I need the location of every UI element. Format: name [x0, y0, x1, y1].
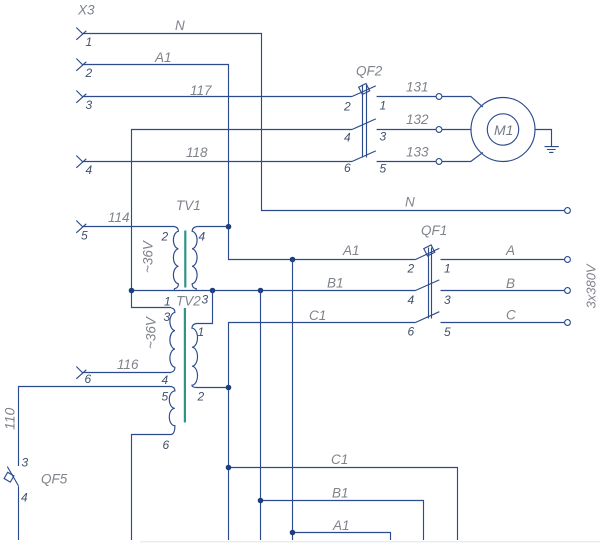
breaker QF2 square [359, 83, 370, 94]
junction TV1.4/A1 [226, 224, 232, 230]
transformer TV2 secondary winding pins 1-2 [192, 291, 229, 388]
junction A1 bottom [290, 530, 296, 536]
transformer TV1 core [184, 231, 186, 288]
wire B1 branch down [260, 291, 262, 541]
svg-text:117: 117 [190, 83, 212, 98]
svg-text:133: 133 [406, 145, 429, 160]
svg-text:2: 2 [197, 390, 205, 404]
svg-text:C: C [506, 308, 516, 323]
transformer TV2 winding pins 5-6 [132, 387, 175, 541]
svg-text:TV1: TV1 [176, 198, 201, 213]
breaker QF1 blade pole 3 [416, 312, 440, 323]
svg-text:5: 5 [444, 325, 451, 339]
wire motor to ground [535, 130, 552, 147]
svg-text:X3: X3 [77, 3, 95, 18]
svg-text:QF2: QF2 [356, 64, 383, 79]
wire from QF5.4 down [18, 486, 20, 540]
svg-text:2: 2 [343, 100, 351, 114]
svg-text:B1: B1 [327, 276, 344, 291]
terminal circle A [565, 257, 571, 263]
motor M1 inner circle [487, 114, 518, 145]
terminal circle C [565, 320, 571, 326]
transformer TV2 winding pins 3-4 [170, 308, 175, 373]
svg-text:C1: C1 [331, 452, 348, 467]
transformer TV2 core [184, 308, 186, 423]
svg-text:3: 3 [22, 456, 29, 470]
svg-text:4: 4 [344, 131, 351, 145]
svg-text:132: 132 [406, 112, 429, 127]
svg-text:A1: A1 [332, 518, 350, 533]
terminal circle 133 [436, 159, 442, 165]
junction C1/TV2.2 [226, 385, 232, 391]
svg-text:118: 118 [186, 145, 208, 160]
svg-text:4: 4 [21, 491, 28, 505]
connector X3 pin 6 [76, 367, 86, 379]
svg-text:6: 6 [344, 161, 351, 175]
svg-text:~36V: ~36V [144, 315, 159, 349]
svg-text:4: 4 [199, 230, 206, 244]
wire TV1 pin 4 to A1 vertical [197, 226, 228, 228]
junction B1/QF2 branch [129, 288, 135, 294]
svg-text:1: 1 [164, 295, 171, 309]
breaker QF2 blade pole 2 [352, 119, 376, 130]
svg-text:5: 5 [81, 229, 88, 243]
wire B QF1.3 to terminal [441, 290, 566, 292]
svg-text:4: 4 [86, 163, 93, 177]
svg-text:6: 6 [85, 372, 92, 386]
svg-text:4: 4 [162, 373, 169, 387]
svg-text:A1: A1 [342, 243, 360, 258]
connector X3 pin 2 [76, 59, 86, 71]
svg-text:N: N [175, 18, 185, 33]
svg-text:110: 110 [2, 407, 18, 430]
wire N from X3.1 to terminal [82, 34, 565, 211]
wire from B1 up to QF2.4 and down to TV2 pin 3 [132, 130, 353, 308]
transformer TV1 secondary winding pins 4-3 [192, 227, 197, 291]
breaker QF1 blade pole 2 [416, 280, 440, 291]
connector X3 pin 3 [76, 91, 86, 103]
svg-text:B: B [506, 276, 515, 291]
svg-text:3: 3 [164, 310, 171, 324]
wire 132 QF2.3 to motor [377, 129, 472, 131]
breaker QF5 square [4, 472, 14, 482]
wire C1 row from corner to QF1.6 and down [229, 323, 416, 541]
terminal circle 131 [436, 94, 442, 100]
wire 114 from X3.5 to TV1 pin 2 [82, 226, 174, 228]
wire 117 from X3.3 to QF2.2 [82, 96, 352, 98]
junction B1/branch down [258, 288, 264, 294]
wire 133 QF2.5 to motor [377, 152, 483, 161]
svg-text:3x380V: 3x380V [584, 263, 599, 308]
svg-text:4: 4 [408, 293, 415, 307]
svg-text:5: 5 [162, 390, 169, 404]
wire 118 from X3.4 to QF2.6 [82, 161, 352, 163]
junction B1/TV2.1 [210, 288, 216, 294]
svg-text:2: 2 [85, 66, 93, 80]
wire 131 QF2.1 to motor [377, 97, 483, 108]
sheet edge line [140, 541, 600, 543]
svg-text:1: 1 [86, 35, 93, 49]
breaker QF5 blade [7, 467, 18, 486]
svg-text:6: 6 [163, 438, 170, 452]
svg-text:1: 1 [380, 99, 387, 113]
breaker QF1 square [424, 245, 435, 256]
connector X3 pin 5 [76, 221, 86, 233]
wire A QF1.1 to terminal [441, 259, 566, 261]
svg-text:3: 3 [444, 293, 451, 307]
ground symbol [545, 147, 559, 153]
svg-text:3: 3 [380, 130, 387, 144]
svg-text:3: 3 [86, 98, 93, 112]
svg-text:A: A [505, 243, 515, 258]
wire A1 branch down [292, 260, 294, 541]
svg-text:116: 116 [117, 357, 139, 372]
wire A1 bottom row [293, 533, 391, 541]
wire 110 from QF5.3 to TV2.5 [19, 387, 172, 467]
wire B1 row to QF1.4 [132, 290, 416, 292]
wire A1 from X3.2 down to QF1 row A [82, 65, 415, 260]
breaker QF2 linkage [363, 85, 367, 158]
svg-text:C1: C1 [309, 308, 326, 323]
breaker QF1 linkage [429, 248, 432, 319]
svg-text:131: 131 [406, 80, 429, 95]
svg-text:2: 2 [161, 230, 169, 244]
svg-text:1: 1 [444, 262, 451, 276]
wire C1 bottom row [229, 468, 458, 541]
wire 116 from X3.6 to TV2.4 [82, 372, 171, 374]
connector X3 pin 4 [76, 156, 86, 168]
svg-text:TV2: TV2 [176, 294, 201, 309]
breaker QF2 blade pole 1 [352, 86, 376, 97]
svg-text:2: 2 [407, 262, 415, 276]
connector X3 pin 1 [76, 28, 86, 40]
breaker QF1 blade pole 1 [416, 248, 440, 259]
svg-text:6: 6 [408, 325, 415, 339]
svg-text:3: 3 [202, 293, 209, 307]
junction C1 bottom [226, 465, 232, 471]
svg-text:1: 1 [198, 325, 205, 339]
svg-text:N: N [405, 195, 415, 210]
junction A1/branch down [290, 257, 296, 263]
wire C QF1.5 to terminal [441, 322, 566, 324]
svg-text:114: 114 [108, 210, 130, 225]
wire B1 bottom row [261, 501, 424, 541]
svg-text:QF1: QF1 [421, 223, 447, 238]
svg-text:M1: M1 [494, 122, 513, 138]
breaker QF2 blade pole 3 [352, 151, 376, 162]
svg-text:5: 5 [380, 162, 387, 176]
terminal circle 132 [436, 127, 442, 133]
svg-text:B1: B1 [332, 486, 349, 501]
motor M1 outer circle [471, 98, 535, 162]
terminal circle N [565, 208, 571, 214]
terminal circle B [565, 288, 571, 294]
transformer TV1 primary winding pins 2-1 [173, 227, 178, 291]
svg-text:A1: A1 [154, 50, 172, 65]
svg-text:~36V: ~36V [141, 239, 156, 273]
junction B1 bottom [258, 498, 264, 504]
svg-text:QF5: QF5 [41, 472, 68, 487]
